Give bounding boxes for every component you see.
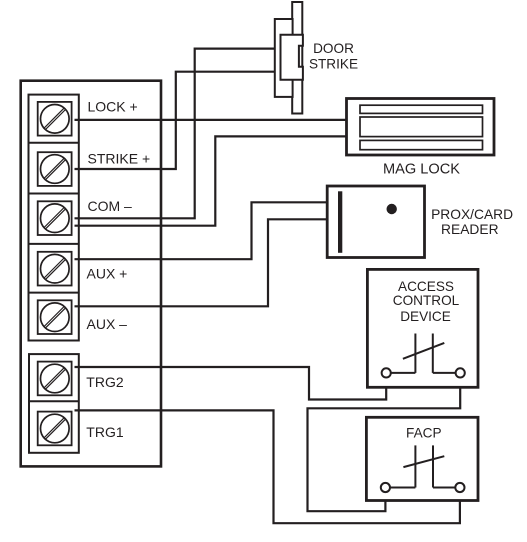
svg-text:MAG LOCK: MAG LOCK [383, 161, 460, 177]
terminal circle FACP left [381, 483, 390, 492]
prox/card reader slot bar [338, 191, 342, 253]
cell divider 3 [29, 243, 79, 245]
svg-text:TRG1: TRG1 [86, 424, 124, 440]
terminal circle ACD left [382, 368, 391, 377]
label ACCESS CONTROL DEVICE [393, 279, 460, 324]
cell divider 5 [29, 400, 79, 402]
wire ACCESS CONTROL DEVICE right terminal to FACP left terminal [308, 377, 461, 511]
wire TRG1 to FACP right terminal [75, 410, 460, 523]
terminal screw COM- [38, 201, 72, 235]
door strike body [275, 19, 293, 97]
svg-text:DOOR: DOOR [313, 41, 354, 56]
access control device box [367, 269, 478, 387]
wire COM- to MAG LOCK lower [75, 136, 347, 225]
wire AUX- to PROX/CARD READER lower [75, 219, 328, 306]
svg-text:AUX –: AUX – [87, 316, 128, 332]
switch contacts ACCESS CONTROL DEVICE [391, 334, 456, 373]
cell divider 2 [29, 193, 79, 195]
prox/card reader LED dot [387, 204, 397, 214]
terminal screw STRIKE+ [38, 152, 72, 186]
prox/card reader body [327, 186, 424, 258]
label PROX/CARD READER [431, 207, 513, 237]
svg-text:ACCESS: ACCESS [398, 279, 454, 294]
svg-text:READER: READER [441, 222, 499, 237]
terminal screw AUX- [38, 300, 72, 334]
terminal screw TRG2 [38, 362, 72, 396]
label DOOR STRIKE [309, 41, 358, 72]
svg-text:STRIKE +: STRIKE + [88, 151, 151, 167]
svg-text:LOCK +: LOCK + [88, 98, 138, 114]
mag lock bar top [360, 105, 483, 113]
svg-text:COM –: COM – [88, 198, 133, 214]
svg-text:FACP: FACP [406, 425, 442, 440]
svg-text:PROX/CARD: PROX/CARD [431, 207, 513, 222]
FACP box [366, 417, 478, 500]
terminal circle FACP right [455, 483, 464, 492]
terminal screw AUX+ [38, 252, 72, 286]
switch contacts FACP [391, 445, 457, 487]
wire STRIKE+ to DOOR STRIKE lower [75, 72, 276, 169]
svg-text:TRG2: TRG2 [86, 374, 124, 390]
svg-text:DEVICE: DEVICE [400, 309, 451, 324]
terminal group box 1 [29, 95, 79, 341]
wire LOCK+ to MAG LOCK [75, 119, 347, 121]
terminal circle ACD right [456, 368, 465, 377]
svg-text:CONTROL: CONTROL [393, 293, 460, 308]
cell divider 1 [29, 142, 79, 144]
mag lock bar middle [360, 117, 483, 137]
door strike keeper [281, 35, 303, 80]
terminal screw LOCK+ [38, 102, 72, 136]
cell divider 4 [29, 292, 79, 294]
wire AUX+ to PROX/CARD READER upper [75, 202, 328, 259]
wire COM- to DOOR STRIKE upper [75, 49, 276, 219]
terminal group box 2 [29, 354, 79, 453]
mag lock body [347, 99, 495, 156]
terminal screw TRG1 [38, 412, 72, 446]
svg-text:STRIKE: STRIKE [309, 57, 358, 72]
controller outer box [21, 81, 161, 467]
wire TRG2 to ACCESS CONTROL DEVICE left terminal [75, 367, 387, 400]
svg-text:AUX +: AUX + [87, 266, 128, 282]
door strike back plate [292, 2, 302, 114]
mag lock bar bottom [360, 140, 483, 149]
